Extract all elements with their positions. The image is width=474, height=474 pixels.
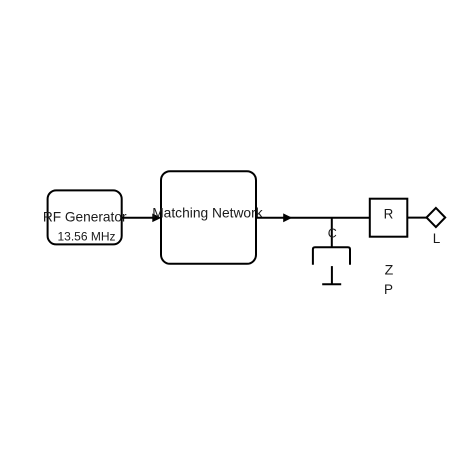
svg-text:P: P — [384, 282, 393, 297]
svg-text:R: R — [384, 207, 394, 222]
RF generator value label "13.56 MHz" — [57, 229, 115, 243]
wire: junction stub down to capacitor C — [331, 218, 333, 247]
svg-text:Matching Network: Matching Network — [152, 206, 263, 221]
arrowhead on wire W2 — [283, 213, 292, 222]
wire W1: RF generator output to matching network input — [122, 217, 153, 219]
resistor R label — [384, 207, 394, 222]
label Z (plasma impedance) — [385, 262, 394, 278]
capacitor C label — [328, 226, 337, 240]
RF generator block (source) — [48, 190, 122, 244]
svg-text:Z: Z — [385, 262, 394, 278]
ground symbol — [322, 266, 341, 284]
capacitor C electrode (staple shaped plate) — [313, 247, 350, 265]
RF generator label "RF Generator" — [43, 210, 127, 225]
wire W2: matching network output to resistor R — [256, 217, 370, 219]
svg-text:C: C — [328, 226, 337, 240]
svg-text:13.56 MHz: 13.56 MHz — [57, 229, 115, 243]
matching network label "Matching Network" — [152, 206, 263, 221]
svg-text:RF Generator: RF Generator — [43, 210, 127, 225]
label L — [433, 231, 441, 246]
matching network box — [161, 171, 256, 264]
resistor R box (plasma resistance) — [370, 199, 408, 237]
label P — [384, 282, 393, 297]
inductor L diamond symbol — [427, 208, 446, 227]
svg-text:L: L — [433, 231, 441, 246]
wire W3: resistor R to inductor L diamond — [407, 217, 426, 219]
arrowhead at matching network input — [152, 214, 161, 223]
